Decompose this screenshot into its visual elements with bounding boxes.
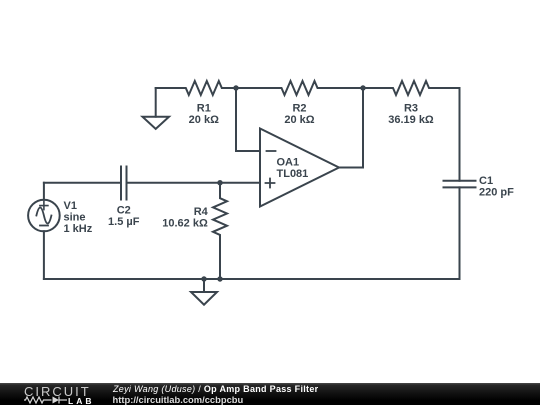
svg-text:10.62 kΩ: 10.62 kΩ: [162, 217, 208, 229]
svg-text:20 kΩ: 20 kΩ: [189, 114, 219, 126]
svg-text:R1: R1: [197, 102, 211, 114]
svg-text:R4: R4: [194, 206, 209, 218]
svg-text:C1: C1: [479, 175, 493, 187]
svg-text:20 kΩ: 20 kΩ: [284, 114, 314, 126]
svg-text:220 pF: 220 pF: [479, 187, 514, 199]
svg-text:R3: R3: [404, 102, 418, 114]
svg-text:sine: sine: [64, 211, 86, 223]
svg-text:C2: C2: [117, 204, 131, 216]
svg-text:36.19 kΩ: 36.19 kΩ: [388, 114, 434, 126]
svg-text:OA1: OA1: [277, 156, 300, 168]
svg-text:V1: V1: [64, 200, 77, 212]
svg-text:R2: R2: [292, 102, 306, 114]
svg-text:TL081: TL081: [277, 168, 309, 180]
svg-text:1.5 µF: 1.5 µF: [108, 216, 140, 228]
svg-text:1 kHz: 1 kHz: [64, 223, 93, 235]
